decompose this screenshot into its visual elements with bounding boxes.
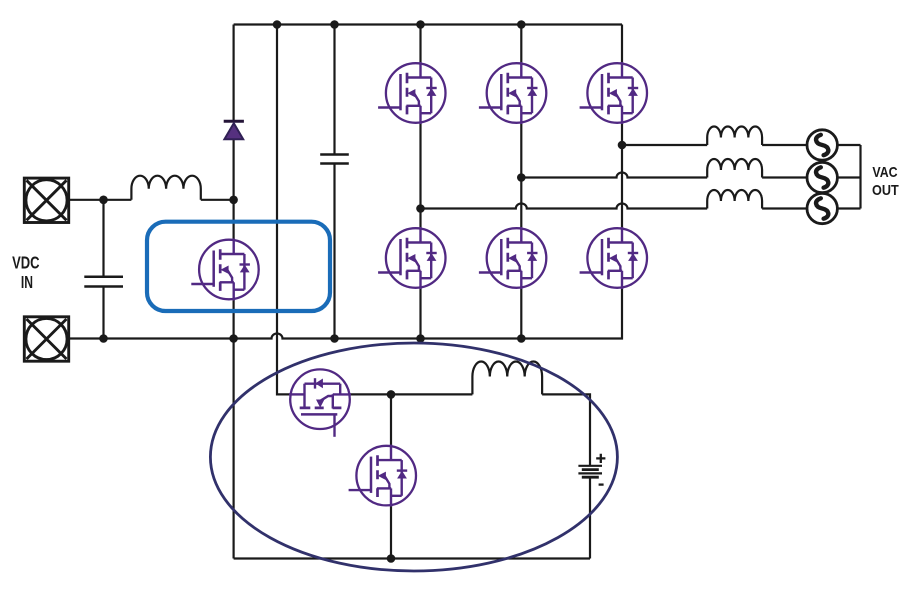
inductor L5 charger — [472, 361, 542, 394]
wire charger bottom return — [234, 557, 590, 559]
wire SA to right bus — [837, 207, 860, 209]
node phase C — [618, 141, 627, 150]
wire inverter leg1 mid — [419, 123, 421, 228]
wire top DC rail — [234, 23, 622, 25]
source SC AC phase C — [807, 130, 837, 160]
wire bottom DC bus with hop — [69, 288, 622, 339]
wire Q1 source to bottom bus — [233, 299, 235, 338]
wire phase A line with hops — [421, 204, 708, 209]
wire VDC+ port to inductor — [69, 199, 132, 201]
wire inverter leg2 drain — [520, 25, 522, 64]
wire battery minus to bottom — [589, 477, 591, 558]
inductor L4 phase A — [707, 190, 762, 209]
node rail-J3 — [416, 20, 425, 29]
wire left lower vertical — [233, 339, 235, 559]
transistor Q7 inverter leg3 low — [580, 227, 647, 289]
inductor L1 — [131, 176, 200, 200]
wire inverter leg3 drain — [621, 25, 623, 64]
wire second vertical rail to charger leg — [277, 25, 290, 395]
node rail-J1 — [273, 20, 282, 29]
node bus-Q1 — [229, 334, 238, 343]
wire L1 to node A — [201, 199, 234, 201]
wire capacitor C1 bottom lead — [102, 287, 104, 339]
node charger bottom — [387, 554, 396, 563]
node rail-J4 — [517, 20, 526, 29]
capacitor C1 plates — [84, 277, 123, 287]
terminal X1 VDC+ — [24, 178, 68, 222]
wire capacitor C1 top lead — [102, 200, 104, 277]
svg-text:IN: IN — [21, 272, 33, 292]
transistor Q3 inverter leg2 high — [479, 62, 546, 124]
capacitor C2 plates — [320, 155, 349, 164]
svg-text:VAC: VAC — [872, 165, 898, 181]
battery minus sign — [599, 483, 604, 485]
wire L3 to source SB — [762, 176, 807, 178]
transistor Q2 inverter leg1 high — [378, 62, 445, 124]
source SA AC phase A — [807, 193, 837, 223]
svg-text:OUT: OUT — [872, 183, 899, 199]
transistor Q4 inverter leg3 high — [580, 62, 647, 124]
node rail-J2 — [330, 20, 339, 29]
node bus-J3 — [416, 334, 425, 343]
wire SB to right bus — [837, 176, 860, 178]
wire phase C line — [622, 144, 707, 146]
highlight ellipse around charger — [210, 343, 617, 571]
label VDC IN — [12, 253, 40, 292]
wire SC to right bus — [837, 144, 860, 146]
battery plus sign — [596, 454, 605, 463]
diode D1 boost bypass — [224, 121, 244, 139]
wire charger node to Q9 drain — [390, 394, 392, 445]
transistor Q5 inverter leg1 low — [378, 227, 445, 289]
svg-text:VDC: VDC — [12, 253, 40, 273]
inductor L2 phase C — [707, 126, 762, 145]
wire diode-to-input-node — [233, 139, 235, 200]
wire inverter leg1 source — [419, 288, 421, 339]
wire Q9 source to bottom — [390, 505, 392, 558]
node phase B — [517, 173, 526, 182]
wire C2 to bottom bus — [333, 164, 335, 339]
highlight box around boost MOSFET — [147, 222, 330, 311]
wire left vertical rail-to-diode — [233, 25, 235, 122]
wire rail to C2 — [333, 25, 335, 155]
wire L5 to battery — [542, 394, 590, 465]
node bus-C1 — [99, 334, 108, 343]
transistor Q6 inverter leg2 low — [479, 227, 546, 289]
transistor Q1 boost MOSFET — [191, 239, 258, 301]
node A boost input — [229, 196, 238, 205]
label VAC OUT — [872, 165, 899, 199]
wire node A to Q1 drain — [233, 200, 235, 240]
inductor L3 phase B — [707, 159, 762, 178]
battery BT1 plates — [578, 465, 602, 467]
wire inverter leg3 mid — [621, 123, 623, 228]
wire L2 to source SC — [762, 144, 807, 146]
wire inverter leg1 drain — [419, 25, 421, 64]
transistor Q9 charger low-side — [349, 445, 416, 507]
source SB AC phase B — [807, 162, 837, 192]
node input-C1 — [99, 196, 108, 205]
terminal X2 VDC- — [24, 317, 68, 361]
wire phase B line with hop — [521, 173, 707, 178]
wire Q8 source to charger node — [350, 393, 473, 395]
wire right output bus — [859, 145, 861, 209]
node charger mid — [387, 390, 396, 399]
transistor Q8 charger high-side (horizontal) — [289, 369, 351, 436]
node phase A — [416, 204, 425, 213]
wire inverter leg2 source — [520, 288, 522, 339]
node bus-J4 — [517, 334, 526, 343]
node bus-C2 — [330, 334, 339, 343]
wire inverter leg2 mid — [520, 123, 522, 228]
wire L4 to source SA — [762, 207, 807, 209]
